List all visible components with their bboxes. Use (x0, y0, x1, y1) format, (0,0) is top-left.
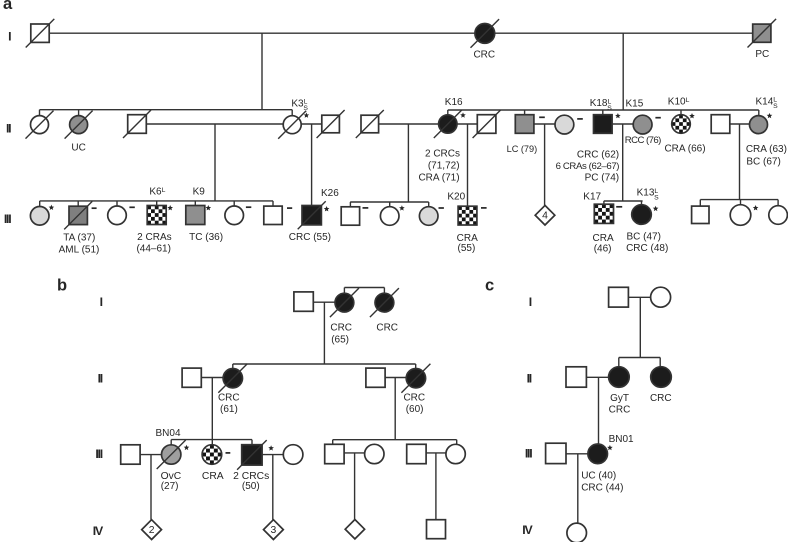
svg-text:CRC: CRC (473, 49, 495, 60)
wire a tick II K14 (758, 110, 760, 115)
individual a-III-17 female (769, 206, 788, 225)
wire b drop to IV square (435, 453, 437, 520)
individual a-I-1 deceased male (31, 24, 49, 42)
individual a-II-11 K18 affected male (594, 115, 613, 134)
svg-text:CRA (71): CRA (71) (418, 172, 459, 183)
wire b drop II right couple (394, 378, 396, 440)
svg-text:III: III (95, 447, 102, 461)
wire b drop II left couple (211, 378, 213, 440)
svg-text:BN01: BN01 (609, 434, 634, 445)
wire a tick III-right-1 (699, 200, 701, 206)
wire a drop LC couple to diamond 4 (544, 124, 546, 206)
wire a tick II K18 (602, 110, 604, 115)
svg-text:2: 2 (149, 525, 155, 536)
individual a-III-14 K13 affected female (632, 205, 652, 225)
wire b tick III right ci (456, 440, 458, 445)
wire a gen III mid sibship line (350, 201, 429, 203)
individual c-IV-1 female (567, 523, 587, 542)
wire a tick III-mid-3 (428, 202, 430, 207)
svg-text:RCC (76): RCC (76) (625, 135, 661, 146)
wire c marriage II (587, 376, 609, 378)
wire b tick CRC61 (232, 364, 234, 369)
wire b drop to diamond 3 (272, 455, 274, 520)
wire a tick K13 (641, 201, 643, 205)
wire a marriage sq369-K16 (379, 123, 439, 125)
individual a-III-15 male (692, 206, 709, 223)
wire a tick III-right-3 (777, 200, 779, 206)
individual a-II-4 K3 female deceased (283, 116, 301, 134)
svg-text:TA (37): TA (37) (63, 232, 95, 243)
wire a gen II left sibship line (40, 109, 293, 111)
sibship diamond 4 children of LC (535, 205, 555, 225)
wire a drop K18+K15 to K17/K13 sibship (622, 124, 624, 201)
svg-text:K15: K15 (626, 98, 644, 109)
wire b tick sister1 (343, 288, 345, 294)
wire a tick II LC (524, 110, 526, 115)
wire a K17/K13 sibship line (604, 200, 643, 202)
individual a-III-11 female (419, 207, 438, 226)
wire a tick II K3 (291, 110, 293, 116)
svg-text:K26: K26 (321, 188, 339, 199)
wire a drop couple2 to gen II sibship (622, 33, 624, 110)
individual b-III-9 female (446, 444, 465, 463)
individual a-II-2 UC female deceased (70, 116, 88, 134)
svg-text:6 CRAs (62–67): 6 CRAs (62–67) (556, 161, 620, 172)
individual b-I-2 CRC65 female deceased (335, 293, 354, 312)
individual a-II-10 female spouse of LC (555, 115, 574, 134)
individual a-III-4 K6 carrier male (147, 206, 151, 210)
individual b-III-1 male (121, 445, 140, 464)
individual b-II-4 CRC60 female deceased (406, 369, 425, 388)
individual a-II-7 K16 affected female deceased (439, 115, 457, 133)
svg-text:CRA (66): CRA (66) (664, 144, 705, 155)
svg-text:UC: UC (71, 143, 85, 154)
wire a gen II right sibship line (448, 109, 759, 111)
svg-text:K17: K17 (583, 191, 601, 202)
svg-text:2 CRCs: 2 CRCs (425, 149, 460, 160)
wire a tick III-left-3 (116, 201, 118, 206)
svg-text:c: c (485, 276, 494, 294)
wire a tick III-left-5 (194, 201, 196, 206)
individual b-III-7 female (365, 444, 384, 463)
sibship diamond empty (345, 520, 364, 539)
wire b marriage II right (385, 377, 407, 379)
individual b-IV male (427, 520, 446, 539)
wire a marriage sq720-K14 (730, 123, 750, 125)
wire c drop III to IV circle (577, 454, 579, 523)
individual a-III-5 K9 TC male (186, 206, 205, 225)
wire c marriage III (566, 453, 588, 455)
svg-text:CRC: CRC (650, 393, 672, 404)
svg-text:UC (40): UC (40) (581, 470, 616, 481)
individual a-III-16 female (730, 205, 751, 226)
wire b tick III right sq (332, 440, 334, 445)
wire c drop I to II sibship (639, 297, 641, 357)
svg-text:a: a (3, 0, 13, 13)
svg-text:(65): (65) (331, 334, 349, 345)
individual a-III-13 K17 carrier male (594, 204, 598, 208)
individual a-I-3 PC male deceased (753, 24, 771, 42)
svg-text:II: II (98, 372, 103, 386)
svg-text:CRC (62): CRC (62) (577, 150, 619, 161)
individual b-III-2 BN04 OvC female deceased (162, 445, 181, 464)
wire b marriage I couple (313, 301, 335, 303)
wire b tick CRC60 (415, 364, 417, 369)
wire b marriage III right2 (426, 452, 446, 454)
svg-text:3: 3 (271, 525, 277, 536)
individual a-II-8 deceased male second spouse of K16 (477, 115, 496, 134)
svg-text:4: 4 (542, 211, 548, 222)
wire b gen III left sibship line (171, 439, 252, 441)
svg-text:BC (47): BC (47) (626, 232, 660, 243)
wire c tick CRC (659, 358, 661, 367)
svg-text:CRC: CRC (609, 405, 631, 416)
wire a drop couple1 to gen II sibship (261, 33, 263, 110)
wire a tick III-right-2 (740, 200, 742, 206)
wire b gen I sisters bracket (344, 287, 384, 289)
svg-text:(71,72): (71,72) (428, 161, 460, 172)
svg-text:CRC: CRC (403, 393, 425, 404)
svg-text:b: b (57, 277, 67, 295)
individual a-III-1 female carrier (30, 207, 49, 226)
wire a tick III-left-1 (39, 201, 41, 206)
individual a-II-1 deceased female (31, 116, 49, 134)
individual b-II-1 male (182, 368, 201, 387)
individual a-II-5 deceased male second spouse of K3 (322, 115, 340, 133)
wire a marriage sq137-K3 (147, 123, 283, 125)
svg-text:CRA (63): CRA (63) (746, 144, 787, 155)
svg-text:CRA: CRA (593, 233, 614, 244)
wire a tick K17 (603, 201, 605, 204)
svg-text:CRC: CRC (376, 323, 398, 334)
wire a tick III-mid-1 (349, 202, 351, 207)
individual b-I-1 male (294, 292, 313, 311)
svg-text:PC (74): PC (74) (585, 172, 619, 183)
individual a-II-9 LC male (515, 115, 534, 134)
individual a-II-3 deceased male spouse of K3 (128, 115, 147, 134)
svg-text:(46): (46) (594, 243, 612, 254)
svg-text:II: II (6, 122, 11, 136)
svg-text:BN04: BN04 (156, 428, 181, 439)
individual b-II-3 male (366, 368, 385, 387)
wire b marriage III right1 (344, 452, 365, 454)
wire c tick GyT (618, 358, 620, 367)
wire a drop K16+sq486 to K20 (467, 124, 469, 206)
wire a tick III-left-6 (233, 201, 235, 206)
svg-text:BC (67): BC (67) (746, 156, 780, 167)
svg-text:(60): (60) (406, 404, 424, 415)
wire a tick II-2 UC (78, 110, 80, 116)
wire a drop sq369+K16 to gen III mid sibship (407, 124, 409, 202)
wire b marriage 2CRCs (262, 454, 283, 456)
wire b tick CRA (211, 440, 213, 445)
svg-text:K16: K16 (445, 97, 463, 108)
individual b-III-8 male (407, 444, 426, 463)
individual c-II-3 CRC affected female (651, 367, 672, 388)
individual a-II-14 male spouse of K14 (711, 115, 730, 134)
wire b gen III right sibship line (333, 439, 457, 441)
individual b-I-3 CRC female deceased (375, 293, 394, 312)
wire a marriage K18-K15 (612, 123, 633, 125)
wire b marriage II left (201, 377, 223, 379)
wire a marriage K3-sq330 (301, 123, 322, 125)
individual a-III-2 TA AML male deceased (69, 206, 87, 224)
svg-text:(50): (50) (242, 481, 260, 492)
sibship diamond 3 children of 2CRCs (264, 520, 284, 540)
individual a-II-6 deceased male first spouse of K16 (361, 115, 379, 133)
wire a tick III-left-7 (272, 201, 274, 206)
individual b-III-5 female (283, 445, 303, 465)
svg-text:K9: K9 (193, 187, 206, 198)
wire a tick II K16 (447, 110, 449, 115)
individual c-III-2 BN01 affected female (588, 444, 608, 464)
wire a marriage LC-circle564 (534, 123, 555, 125)
svg-text:(55): (55) (458, 243, 476, 254)
wire c drop II to BN01 (598, 377, 600, 443)
svg-text:CRC (55): CRC (55) (289, 232, 331, 243)
svg-text:(61): (61) (220, 404, 238, 415)
svg-text:PC: PC (755, 49, 769, 60)
individual c-III-1 male (546, 443, 566, 463)
wire b tick sister2 (383, 288, 385, 294)
svg-text:CRC (44): CRC (44) (581, 482, 623, 493)
wire a drop K3+sq330 to K26 (311, 124, 313, 206)
wire c gen II sibship line (619, 357, 660, 359)
wire a drop sq720+K14 to gen III right sibship (739, 124, 741, 200)
svg-text:CRA: CRA (202, 471, 224, 482)
individual c-II-1 male (566, 367, 586, 387)
wire a gen III left sibship line (40, 200, 273, 202)
wire a marriage K16-sq486 (457, 123, 478, 125)
individual a-III-9 male (341, 207, 359, 225)
individual b-III-4 2CRCs affected male deceased (242, 445, 262, 465)
svg-text:III: III (4, 212, 11, 226)
individual a-I-2 CRC affected female deceased (475, 24, 495, 44)
wire b tick BN04 (170, 440, 172, 445)
wire b tick 2CRCs (251, 440, 253, 445)
individual b-II-2 CRC61 female deceased (223, 369, 242, 388)
svg-text:III: III (525, 447, 532, 461)
individual a-II-12 K15 female (633, 115, 652, 134)
individual a-III-8 K26 CRC male deceased (302, 206, 321, 225)
individual a-III-3 female (108, 206, 127, 225)
individual c-II-2 GyT CRC affected female (609, 367, 630, 388)
wire a tick II K10 (680, 110, 682, 115)
wire b gen II sibship line (233, 363, 416, 365)
svg-text:(27): (27) (161, 481, 179, 492)
svg-text:TC (36): TC (36) (189, 232, 223, 243)
individual b-III-6 male (325, 444, 344, 463)
sibship diamond 2 children of BN04 (142, 520, 162, 540)
svg-text:AML (51): AML (51) (59, 244, 100, 255)
wire b drop to diamond 2 (150, 455, 152, 520)
wire a tick II-1 (39, 110, 41, 116)
svg-text:(44–61): (44–61) (136, 243, 170, 254)
individual a-III-7 male (264, 206, 282, 224)
wire a tick III-left-2 (77, 201, 79, 206)
svg-text:CRC (48): CRC (48) (626, 243, 668, 254)
wire a drop sq137+K3 to gen III left sibship (214, 124, 216, 201)
svg-text:K20: K20 (447, 192, 465, 203)
svg-text:CRC: CRC (218, 393, 240, 404)
wire b marriage BN04 (141, 454, 162, 456)
svg-text:II: II (527, 371, 532, 385)
wire a gen I couple line (49, 32, 753, 34)
svg-text:LC (79): LC (79) (507, 144, 538, 154)
svg-text:GyT: GyT (610, 393, 629, 404)
wire b drop to empty diamond (354, 453, 356, 520)
wire a gen III right sibship line (700, 199, 778, 201)
svg-text:2 CRAs: 2 CRAs (137, 232, 171, 243)
individual a-III-10 female (380, 207, 399, 226)
wire a tick III-mid-2 (389, 202, 391, 207)
individual c-I-1 male (609, 287, 629, 307)
individual c-I-2 female (651, 287, 671, 307)
individual a-III-6 female (225, 206, 244, 225)
individual a-III-12 K20 carrier male (458, 206, 462, 210)
individual a-II-15 K14 affected female (750, 116, 768, 134)
wire b drop I couple to II sibship (323, 302, 325, 364)
svg-text:CRC: CRC (330, 323, 352, 334)
wire a tick III-left-4 (156, 201, 158, 206)
wire c marriage I (628, 296, 650, 298)
